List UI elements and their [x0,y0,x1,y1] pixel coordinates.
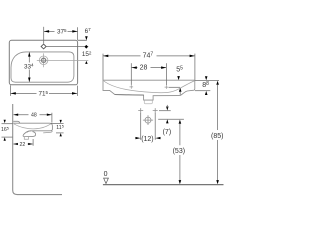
dim 37.5 arrow left [44,30,49,33]
svg-text:(7): (7) [163,129,172,136]
dim 15.2 up arrow [85,61,88,64]
basin side profile [13,123,52,132]
svg-text:(85): (85) [211,133,223,140]
svg-text:28: 28 [140,65,148,72]
trap cover below notch [144,100,152,103]
faucet hole diamond [41,44,46,49]
dim 85 line [217,85,219,181]
dim 28 arrow left [132,66,137,69]
dim 5.5 down arrow [177,76,180,80]
dim 85 down arrow [216,180,219,184]
svg-text:48: 48 [31,113,37,119]
overflow tick [169,86,180,88]
dim 7 up arrow [166,119,169,123]
dim 11.5 up arrow [60,133,62,136]
tick basin bottom left [2,136,13,138]
dim 7 shaft [166,105,168,108]
tick bolt level [159,110,171,112]
tick rim top right [195,79,219,81]
dim 8.8 down arrow [205,76,208,80]
dim 11.5 down arrow [60,120,62,123]
dim 74.7 arrow right [190,55,195,58]
dim 37.5 arrow right [72,30,77,33]
bolt hole cross left [138,108,143,113]
chain diamond marker [85,45,89,49]
svg-text:(12): (12) [141,136,153,143]
dim 71.5 extension right [76,86,78,96]
dim 28 arrow right [161,66,166,69]
washbasin outer rect [9,40,77,85]
dim 16.5 up arrow [4,137,6,140]
wall line with floor [13,104,62,195]
drain crosshair [37,53,89,67]
tick basin top left [2,123,13,125]
dim 71.5 extension left [9,85,11,96]
tick rim bottom right [195,90,210,92]
tick basin bottom right [56,132,64,134]
dim 12 arrow left [135,137,140,139]
dim 53 down arrow [179,180,182,184]
dim 8.8 label [202,81,210,88]
drain circle bottom [145,117,151,123]
floor line [103,184,224,186]
washbasin inner bowl outline [11,52,74,82]
front skirt lower line [43,131,52,133]
dim 71.5 arrow left [11,92,16,95]
dim 33.4 up arrow [28,52,31,57]
dim 48 arrow right [47,114,52,116]
overflow cross front [165,85,169,89]
dim 7 down arrow [166,107,169,111]
dim 28 extension left [130,63,132,85]
drain square [42,59,45,62]
bowl silhouette curve [14,124,51,129]
dim 16.5 down arrow [4,120,6,123]
drain outer circle [39,56,48,65]
dim 6.7 down arrow [85,36,88,40]
drain inner circle [41,58,46,63]
dim 11.5 label [56,124,64,129]
dim 22 line [13,143,32,145]
drain cross bottom [143,115,153,125]
dim 74.7 arrow left [103,55,108,58]
dim 22 arrow right [28,143,33,145]
dim 33.4 line [28,52,30,82]
bowl curve [104,81,195,93]
svg-text:0: 0 [104,171,108,178]
basin rear lip [13,121,19,123]
datum triangle [104,178,109,183]
dim 71.5 line [11,92,78,94]
dim 28 extension right [165,63,167,85]
tick drain level [158,118,184,120]
dim 33.4 down arrow [28,78,31,83]
dim 37.5 line [44,30,78,32]
dim 53 line [179,123,181,180]
dim 74.7 extension right [194,54,196,80]
dim 74.7 line [103,55,195,57]
dim 12 extension right [154,113,156,140]
dim 53 up arrow [179,120,182,124]
tick basin top right [51,122,64,124]
dim 48 extension [51,113,53,123]
dim 37.5 extension left (faucet) [43,27,45,44]
svg-text:(53): (53) [173,148,185,155]
dim 12 extension left [140,113,142,140]
dim 22 extension [32,139,34,146]
siphon trap cover [23,131,35,137]
drain cross front [130,85,134,89]
tick faucet centerline [46,46,88,48]
dim 22 arrow left [13,143,18,145]
dim 8.8 up arrow [205,91,208,95]
bolt hole cross right [153,108,158,113]
dim 37.5 extension right [77,27,79,40]
dim 48 line [14,114,52,116]
dim 12 arrow right [155,137,160,139]
dim 5.5 up arrow [179,88,182,92]
apron bottom segment [115,94,144,97]
dim 71.5 arrow right [72,92,77,95]
dim 48 arrow left [13,114,18,116]
svg-text:22: 22 [20,142,26,148]
tick top edge extended [78,39,87,41]
trap tailpiece [24,137,28,140]
dim 28 line [132,67,167,69]
basin front outline [103,80,195,100]
dim 5.5 lower shaft [179,92,181,95]
dim 85 up arrow [216,81,219,85]
dim 74.7 extension left [102,54,104,80]
